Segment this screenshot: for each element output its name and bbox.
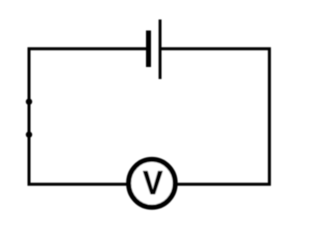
battery cell B1: short thick plate (negative) (146, 31, 151, 68)
node: lower junction dot on left wire (26, 131, 32, 137)
voltmeter V1: circle body (129, 159, 176, 207)
battery cell B1: long thin plate (positive) (159, 20, 162, 80)
wire: top-left from battery around left side to voltmeter (29, 49, 147, 185)
voltmeter V1: letter V (143, 171, 163, 194)
wire: from battery right terminal around right side to voltmeter (160, 49, 270, 185)
node: upper junction dot on left wire (26, 99, 32, 105)
